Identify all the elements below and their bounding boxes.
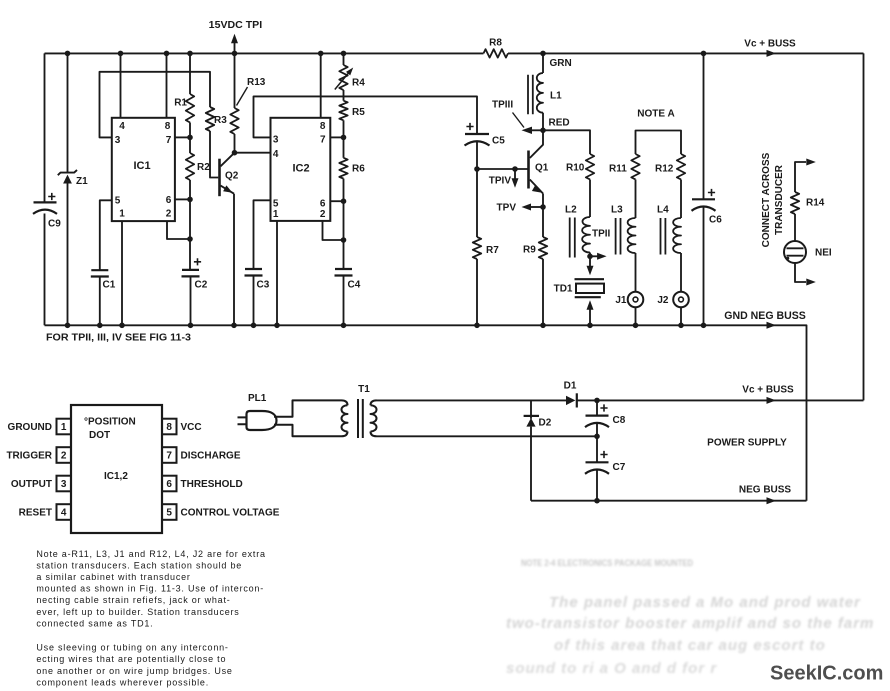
node junction on Vc+ rail (TPI/R13 top) [232,51,238,57]
svg-text:one another or on wire jump br: one another or on wire jump bridges. Use [36,666,232,676]
svg-text:GRN: GRN [550,58,572,69]
arrow down to TD1 [589,256,591,267]
svg-text:IC1: IC1 [133,160,150,172]
neon lamp NE1 [784,241,806,263]
svg-text:Vc + BUSS: Vc + BUSS [744,39,796,50]
svg-text:IC2: IC2 [292,163,309,175]
svg-text:R11: R11 [609,164,627,175]
capacitor C1 [91,270,109,276]
svg-text:RED: RED [549,118,570,129]
diode D1 [566,396,575,405]
node RED junction [540,128,546,134]
svg-text:R6: R6 [352,164,365,175]
inductor L3 [628,218,636,253]
svg-text:5: 5 [166,508,172,519]
svg-text:J1: J1 [615,295,627,306]
svg-text:Use sleeving or tubing on any: Use sleeving or tubing on any interconn- [36,643,228,653]
svg-text:Note a-R11, L3, J1 and R12, L4: Note a-R11, L3, J1 and R12, L4, J2 are f… [36,549,265,559]
svg-text:OUTPUT: OUTPUT [11,479,52,490]
svg-text:connected same as TD1.: connected same as TD1. [36,618,153,628]
svg-text:4: 4 [61,508,67,519]
svg-text:7: 7 [320,134,326,145]
core bars L2 [570,218,575,258]
svg-text:7: 7 [166,135,172,146]
IC1,2 pinout box [71,405,162,533]
pin 4 box (RESET) [57,504,72,520]
svg-text:3: 3 [273,134,279,145]
svg-text:R10: R10 [566,163,585,174]
capacitor C7 [600,451,607,458]
resistor R6 [343,137,345,157]
wire secondary top to D1 [377,399,567,401]
svg-text:C4: C4 [348,280,361,291]
arrow on Vc+ rail [767,50,777,57]
arrow 15VDC TPI (up) [234,42,236,53]
svg-text:POWER SUPPLY: POWER SUPPLY [707,438,787,449]
svg-text:5: 5 [115,196,121,207]
svg-text:of this area that car aug esco: of this area that car aug escort to [554,637,826,654]
wire secondary bottom to C8 junction [377,435,598,437]
pin 8 box (VCC) [162,419,177,435]
transformer T1 primary [342,400,348,405]
node junction on Vc+ rail (IC1 pin8) [164,51,170,57]
svg-text:15VDC TPI: 15VDC TPI [209,19,263,31]
resistor R5 [343,90,345,101]
wire R11/R12 bracket [636,131,682,155]
svg-text:DOT: DOT [89,430,110,441]
resistor R8 [484,49,508,57]
svg-text:station transducers. Each stat: station transducers. Each station should… [36,561,242,571]
resistor R12 [677,154,685,179]
transformer T1 secondary [371,400,377,405]
svg-text:R8: R8 [489,38,502,49]
op-amp/timer IC1 box [112,118,175,221]
resistor R10 [543,130,590,154]
svg-text:5: 5 [273,199,279,210]
svg-text:The panel passed a Mo and prod: The panel passed a Mo and prod water [549,594,861,611]
svg-text:TD1: TD1 [554,284,573,295]
svg-text:3: 3 [115,135,121,146]
svg-text:GROUND: GROUND [8,422,52,433]
svg-text:Vc + BUSS: Vc + BUSS [742,385,794,396]
svg-text:C9: C9 [48,219,61,230]
svg-text:R9: R9 [523,245,536,256]
capacitor C5 [466,123,473,130]
svg-text:J2: J2 [657,295,669,306]
inductor L2 [582,217,590,253]
wire NEG BUSS [531,500,807,502]
capacitor C2 [194,258,201,265]
svg-text:sound to ri a O and d for r: sound to ri a O and d for r [506,660,717,677]
svg-text:TRANSDUCER: TRANSDUCER [774,164,785,235]
svg-text:R2: R2 [197,162,210,173]
svg-text:mounted as shown in Fig. 11-3.: mounted as shown in Fig. 11-3. Use of in… [36,584,264,594]
resistor R11 [631,154,639,179]
svg-text:L2: L2 [565,205,577,216]
capacitor C6 [703,53,705,199]
svg-text:IC1,2: IC1,2 [104,471,128,482]
svg-text:TRIGGER: TRIGGER [6,451,52,462]
svg-text:R4: R4 [352,78,365,89]
node junction on Vc+ rail (C6 top) [701,51,707,57]
svg-text:NOTE A: NOTE A [637,109,674,120]
svg-text:a similar cabinet with transdu: a similar cabinet with transducer [36,572,190,582]
svg-text:4: 4 [273,149,279,160]
svg-text:L4: L4 [657,205,669,216]
svg-text:necting cable strain refiefs,: necting cable strain refiefs, jack or wh… [36,595,230,605]
svg-text:R12: R12 [655,164,674,175]
svg-text:CONTROL VOLTAGE: CONTROL VOLTAGE [181,508,280,519]
svg-text:°POSITION: °POSITION [84,417,136,428]
wire D1 to right corner [577,399,864,401]
inductor L1 [542,53,544,73]
pin 2 box (TRIGGER) [57,447,72,463]
svg-text:Q2: Q2 [225,171,239,182]
transistor Q1 [527,151,530,189]
node junction on Vc+ rail (R1 top) [187,51,193,57]
wire GND NEG bottom rail [45,325,807,500]
wire left vertical (C9 branch) [44,53,46,325]
svg-text:T1: T1 [358,384,370,395]
svg-text:DISCHARGE: DISCHARGE [181,451,241,462]
resistor R2 [189,137,191,153]
capacitor C4 [335,269,353,276]
svg-text:FOR TPII, III, IV SEE FIG 11-3: FOR TPII, III, IV SEE FIG 11-3 [46,333,191,344]
svg-text:Q1: Q1 [535,163,549,174]
pointer line R13 [237,87,248,106]
wire right vertical (Vc+ to power supply) [863,53,865,400]
svg-text:VCC: VCC [181,422,202,433]
svg-text:R7: R7 [486,245,499,256]
svg-text:C7: C7 [613,462,626,473]
svg-text:1: 1 [61,422,67,433]
svg-text:ever, left up to builder. Stat: ever, left up to builder. Station transd… [36,607,239,617]
core bars T1 [358,399,363,438]
svg-text:8: 8 [165,121,171,132]
transistor Q2 [218,159,221,197]
zener diode Z1 [67,53,69,325]
svg-text:R5: R5 [352,107,365,118]
svg-text:two-transistor booster amplif: two-transistor booster amplif and so the… [506,615,874,632]
svg-text:SeekIC.com: SeekIC.com [770,663,883,685]
svg-text:THRESHOLD: THRESHOLD [181,479,243,490]
svg-text:C2: C2 [195,280,208,291]
svg-text:ecting wires that are potentia: ecting wires that are potentially close … [36,654,226,664]
svg-text:2: 2 [320,209,326,220]
svg-text:PL1: PL1 [248,393,267,404]
svg-text:4: 4 [119,121,125,132]
resistor R1 [189,53,191,94]
jack J2 [673,292,689,308]
node junction on Vc+ rail (Z1 top) [65,51,71,57]
inductor L4 [673,218,681,253]
pin 7 box (DISCHARGE) [162,447,177,463]
svg-text:2: 2 [166,209,172,220]
svg-text:TPIV: TPIV [489,176,512,187]
jack J1 [628,292,644,308]
core bars L1 [528,75,533,114]
variable resistor R4 [343,53,345,65]
svg-text:6: 6 [166,479,172,490]
svg-text:L3: L3 [611,205,623,216]
wire C5 to Q1 base [477,168,529,170]
svg-text:3: 3 [61,479,67,490]
diode D2 [530,400,532,500]
op-amp/timer IC2 box [271,118,331,221]
node junction on Vc+ rail (GRN) [540,51,546,57]
node junction on Vc+ rail (R4 top) [341,51,347,57]
test point TPIV [512,166,518,172]
capacitor C9 [48,193,55,200]
arrow terminal top (R14) [795,162,806,192]
svg-text:NOTE 2-4 ELECTRONICS PACKAGE M: NOTE 2-4 ELECTRONICS PACKAGE MOUNTED [521,558,693,568]
wire Vc+ top rail [45,52,864,54]
pin 5 box (CONTROL VOLTAGE) [162,504,177,520]
svg-text:C6: C6 [709,215,722,226]
svg-text:C5: C5 [492,136,505,147]
test point TPV [540,204,546,210]
svg-text:R1: R1 [174,98,187,109]
svg-text:2: 2 [61,451,67,462]
svg-text:Z1: Z1 [76,176,88,187]
svg-text:6: 6 [320,199,326,210]
capacitor C3 [245,269,263,276]
svg-text:GND NEG BUSS: GND NEG BUSS [724,310,806,322]
node junction on Vc+ rail (IC2 pin8) [318,51,324,57]
arrow on GND rail [767,322,777,329]
resistor R14 [791,192,799,214]
svg-text:1: 1 [119,209,125,220]
resistor R7 [476,169,478,325]
svg-text:D1: D1 [564,381,577,392]
pin 6 box (THRESHOLD) [162,476,177,492]
resistor R9 [542,207,544,325]
svg-text:C3: C3 [257,280,270,291]
pin 3 box (OUTPUT) [57,476,72,492]
svg-text:NEI: NEI [815,248,832,259]
svg-text:TPV: TPV [497,203,517,214]
svg-text:8: 8 [166,422,172,433]
arrow up to TD1 from rail [589,308,591,325]
node junction on Vc+ rail (IC1 pin4) [118,51,124,57]
svg-text:CONNECT ACROSS: CONNECT ACROSS [761,152,772,247]
svg-text:RESET: RESET [19,508,52,519]
svg-text:C1: C1 [103,280,116,291]
svg-text:7: 7 [166,451,172,462]
pin 1 box (GROUND) [57,419,72,435]
svg-text:TPIII: TPIII [492,100,513,111]
svg-text:NEG BUSS: NEG BUSS [739,485,792,496]
svg-text:C8: C8 [613,415,626,426]
resistor R13 (from rail) [234,53,236,108]
arrow terminal bottom (NE1) [795,263,806,282]
svg-text:R3: R3 [214,115,227,126]
resistor R3 [206,107,214,131]
svg-text:L1: L1 [550,91,562,102]
svg-text:TPII: TPII [592,229,611,240]
capacitor C8 [600,404,607,411]
svg-text:R13: R13 [247,77,266,88]
wire plug to cord loop [274,400,342,436]
svg-text:component leads wherever possi: component leads wherever possible. [36,677,209,687]
transducer TD1 [575,278,605,280]
svg-text:8: 8 [320,121,326,132]
svg-text:1: 1 [273,209,279,220]
svg-text:6: 6 [166,195,172,206]
svg-text:R14: R14 [806,198,825,209]
svg-text:D2: D2 [539,418,552,429]
